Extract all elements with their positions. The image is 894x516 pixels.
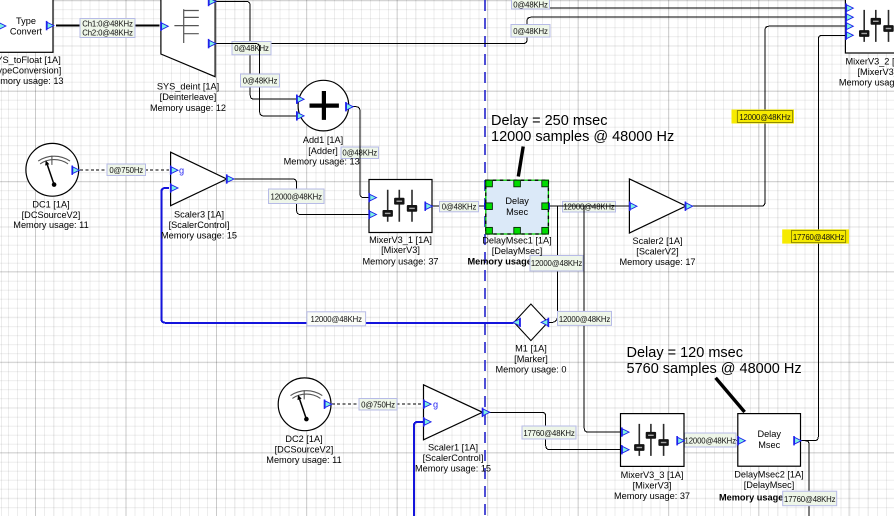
svg-text:MixerV3_1 [1A]: MixerV3_1 [1A] bbox=[369, 235, 432, 245]
svg-text:Scaler2 [1A]: Scaler2 [1A] bbox=[632, 236, 682, 246]
svg-text:17760@48KHz: 17760@48KHz bbox=[793, 233, 845, 242]
svg-text:12000@48KHz: 12000@48KHz bbox=[563, 203, 615, 212]
svg-text:0@48KHz: 0@48KHz bbox=[234, 44, 269, 53]
svg-text:17760@48KHz: 17760@48KHz bbox=[784, 495, 836, 504]
svg-text:[ScalerControl]: [ScalerControl] bbox=[169, 220, 230, 230]
svg-text:[DelayMsec]: [DelayMsec] bbox=[492, 246, 543, 256]
svg-text:17760@48KHz: 17760@48KHz bbox=[523, 429, 575, 438]
dashed wire DC1 to Scaler3 g bbox=[80, 169, 169, 171]
svg-text:Memory usage: 15: Memory usage: 15 bbox=[161, 230, 237, 240]
text label of Scaler1 bbox=[415, 443, 491, 474]
svg-text:[Adder]: [Adder] bbox=[308, 146, 338, 156]
svg-text:DC1 [1A]: DC1 [1A] bbox=[32, 199, 69, 209]
wire branch down to Add1 in2 (drawn over label) bbox=[216, 44, 297, 116]
blue wire M1 out to Scaler3 in2 (feedback) bbox=[161, 188, 513, 323]
block Scaler3 (ScalerControl) bbox=[170, 152, 234, 206]
block Scaler1 (ScalerControl) bbox=[423, 385, 490, 440]
svg-text:Convert: Convert bbox=[10, 27, 43, 37]
label 12000@48KHz (on blue feedback wire) bbox=[307, 312, 366, 326]
svg-text:Memory usage: 37: Memory usage: 37 bbox=[614, 491, 690, 501]
wire MixerV3_3 out to DelayMsec2 in bbox=[684, 440, 737, 442]
text label of DC2 bbox=[266, 434, 341, 465]
svg-text:M1 [1A]: M1 [1A] bbox=[515, 344, 547, 354]
wire SYS_deint out2 right, up to MixerV3_2 in2 bbox=[216, 17, 846, 43]
svg-text:[Deinterleave]: [Deinterleave] bbox=[160, 92, 217, 102]
wire branch down to marker M1 bbox=[549, 206, 558, 322]
label 12000@48KHz (right of M1) bbox=[558, 311, 612, 325]
svg-text:Memory usage: 37: Memory usage: 37 bbox=[362, 257, 438, 267]
svg-text:0@48KHz: 0@48KHz bbox=[513, 27, 548, 36]
svg-text:SYS_deint [1A]: SYS_deint [1A] bbox=[157, 81, 219, 91]
svg-text:12000 samples @ 48000 Hz: 12000 samples @ 48000 Hz bbox=[491, 129, 674, 145]
label 0@48KHz (top, into MixerV3_2 in1) bbox=[512, 0, 550, 10]
svg-text:Delay = 120 msec: Delay = 120 msec bbox=[627, 345, 743, 361]
label 12000@48KHz (DelayMsec1 output net, under wire) bbox=[563, 201, 616, 212]
svg-text:DelayMsec2 [1A]: DelayMsec2 [1A] bbox=[734, 470, 803, 480]
svg-text:[TypeConversion]: [TypeConversion] bbox=[0, 66, 61, 76]
svg-text:DelayMsec1 [1A]: DelayMsec1 [1A] bbox=[482, 235, 551, 245]
label 12000@48KHz (net label next to bold memory text) bbox=[530, 256, 583, 272]
label 12000@48KHz (Scaler3 out net) bbox=[269, 189, 325, 204]
svg-text:5760 samples @ 48000 Hz: 5760 samples @ 48000 Hz bbox=[627, 361, 802, 377]
text label of Add1 bbox=[284, 135, 360, 166]
label 0@48KHz (deint ch2 net) bbox=[241, 74, 280, 87]
svg-text:g: g bbox=[433, 400, 438, 410]
text label of SYS_deint bbox=[150, 81, 226, 112]
svg-text:Memory usage: 11: Memory usage: 11 bbox=[266, 455, 341, 465]
block MixerV3_1 (MixerV3) bbox=[368, 180, 432, 233]
svg-text:12000@48KHz: 12000@48KHz bbox=[559, 315, 611, 324]
svg-text:12000@48KHz: 12000@48KHz bbox=[311, 315, 363, 324]
marker M1 bbox=[513, 304, 549, 341]
text label of MixerV3_3 bbox=[614, 470, 690, 501]
text label of DelayMsec1 bbox=[482, 235, 551, 255]
svg-text:Msec: Msec bbox=[506, 207, 528, 217]
svg-text:Memory usage: 12: Memory usage: 12 bbox=[150, 103, 226, 113]
text label of SYS_toFloat bbox=[0, 55, 64, 86]
svg-text:Memory usage: 39: Memory usage: 39 bbox=[839, 77, 894, 87]
block DelayMsec1 (DelayMsec, selected) bbox=[485, 180, 549, 234]
wire SYS_deint out1 down to Add1 in1 bbox=[216, 2, 297, 100]
block MixerV3_3 (MixerV3) bbox=[621, 414, 685, 467]
label 17760@48KHz (Scaler1 out net) bbox=[522, 426, 576, 439]
text label of MixerV3_1 bbox=[362, 235, 438, 267]
svg-text:12000@48KHz: 12000@48KHz bbox=[271, 193, 323, 202]
svg-text:Scaler1 [1A]: Scaler1 [1A] bbox=[428, 443, 478, 453]
svg-text:0@48KHz: 0@48KHz bbox=[442, 203, 477, 212]
svg-text:Ch2:0@48KHz: Ch2:0@48KHz bbox=[82, 28, 133, 37]
wire Scaler3 out to MixerV3_1 in2 bbox=[234, 179, 369, 215]
wire Add1 out to MixerV3_1 in1 bbox=[352, 107, 369, 198]
svg-text:12000@48KHz: 12000@48KHz bbox=[531, 259, 583, 268]
label 0@48KHz (Add1 output net, under wire) bbox=[341, 147, 379, 159]
svg-text:Delay: Delay bbox=[505, 196, 529, 206]
block DC1 (DCSourceV2) bbox=[26, 143, 80, 196]
wire DelayMsec2 out down off-page bbox=[801, 441, 809, 516]
svg-text:0@48KHz: 0@48KHz bbox=[513, 1, 548, 10]
label 12000@48KHz (MixerV3_3 out net) bbox=[685, 433, 737, 447]
annotation: Delay = 250 msec bbox=[491, 113, 674, 177]
svg-text:Msec: Msec bbox=[758, 440, 780, 450]
svg-text:Delay: Delay bbox=[757, 429, 781, 439]
svg-text:[Marker]: [Marker] bbox=[514, 354, 548, 364]
wire Scaler2 out up to MixerV3_2 in3 bbox=[692, 26, 845, 206]
svg-text:[MixerV3]: [MixerV3] bbox=[633, 481, 672, 491]
svg-text:0@750Hz: 0@750Hz bbox=[361, 400, 395, 409]
svg-text:[ScalerControl]: [ScalerControl] bbox=[423, 453, 484, 463]
label 0@750Hz (DC2 out) bbox=[359, 399, 397, 411]
svg-text:[DelayMsec]: [DelayMsec] bbox=[744, 480, 795, 490]
svg-text:0@750Hz: 0@750Hz bbox=[109, 166, 143, 175]
svg-text:Memory usage: 13: Memory usage: 13 bbox=[284, 156, 360, 166]
svg-text:Delay = 250 msec: Delay = 250 msec bbox=[491, 113, 607, 129]
label 0@48KHz (MixerV3_1 out net) bbox=[440, 201, 479, 211]
text label of MixerV3_2 bbox=[839, 56, 894, 87]
label 0@48KHz (into MixerV3_2 in2) bbox=[511, 25, 550, 38]
block SYS_toFloat (TypeConversion) bbox=[0, 0, 54, 52]
block Add1 (Adder) bbox=[296, 80, 353, 131]
svg-text:Scaler3 [1A]: Scaler3 [1A] bbox=[174, 209, 224, 219]
text label of Scaler2 bbox=[619, 236, 695, 267]
block MixerV3_2 (MixerV3) bbox=[845, 0, 894, 53]
svg-text:Memory usage: 11: Memory usage: 11 bbox=[13, 220, 88, 230]
wire DelayMsec2 out up to MixerV3_2 in4 bbox=[801, 35, 845, 440]
svg-text:Memory usage: 13: Memory usage: 13 bbox=[0, 76, 64, 86]
svg-text:[DCSourceV2]: [DCSourceV2] bbox=[22, 210, 81, 220]
vertical dashed page-break line bbox=[484, 0, 486, 516]
label 17760@48KHz (bottom, DelayMsec2 down net) bbox=[783, 491, 837, 506]
wire DelayMsec1 out to Scaler2 in bbox=[549, 205, 630, 207]
wire SYS_toFloat to SYS_deint (2ch interleaved) bbox=[56, 25, 160, 27]
wire branch down to MixerV3_3 in1 bbox=[584, 206, 621, 432]
label Ch1:0@48KHz Ch2:0@48KHz bbox=[80, 19, 135, 38]
svg-text:[DCSourceV2]: [DCSourceV2] bbox=[275, 445, 334, 455]
svg-text:[MixerV3]: [MixerV3] bbox=[381, 245, 420, 255]
blue wire from off-page bottom to Scaler1 in2 bbox=[414, 422, 423, 516]
wire into MixerV3_2 in1 (from top, behind label) bbox=[516, 0, 845, 8]
wire MixerV3_1 out to DelayMsec1 in bbox=[432, 205, 485, 207]
svg-text:12000@48KHz: 12000@48KHz bbox=[685, 437, 737, 446]
block DC2 (DCSourceV2) bbox=[278, 378, 332, 431]
svg-text:DC2 [1A]: DC2 [1A] bbox=[285, 434, 322, 444]
dashed wire DC2 to Scaler1 g bbox=[332, 403, 423, 405]
svg-text:Memory usage: 0: Memory usage: 0 bbox=[496, 365, 567, 375]
block DelayMsec2 (DelayMsec) bbox=[737, 414, 801, 467]
block Scaler2 (ScalerV2) bbox=[629, 179, 693, 233]
block SYS_deint (Deinterleave) bbox=[160, 0, 216, 77]
text label of DC1 bbox=[13, 199, 88, 230]
svg-text:MixerV3_3 [1A]: MixerV3_3 [1A] bbox=[621, 470, 684, 480]
label 0@750Hz (DC1 out) bbox=[107, 164, 146, 176]
svg-text:[MixerV3]: [MixerV3] bbox=[857, 67, 894, 77]
svg-text:0@48KHz: 0@48KHz bbox=[243, 77, 278, 86]
annotation: Delay = 120 msec bbox=[627, 345, 802, 412]
svg-text:MixerV3_2 [1A]: MixerV3_2 [1A] bbox=[845, 56, 894, 66]
wire Scaler1 out to MixerV3_3 in2 bbox=[489, 412, 621, 449]
label 0@48KHz (deint ch1 net) bbox=[232, 42, 271, 55]
yellow highlighted label 12000@48KHz (Scaler2 out net) bbox=[732, 110, 795, 124]
text label of DelayMsec2 bbox=[734, 470, 803, 490]
svg-text:Add1 [1A]: Add1 [1A] bbox=[303, 135, 343, 145]
svg-text:12000@48KHz: 12000@48KHz bbox=[739, 113, 791, 122]
svg-text:Memory usage: 17: Memory usage: 17 bbox=[619, 257, 695, 267]
svg-text:Ch1:0@48KHz: Ch1:0@48KHz bbox=[82, 19, 133, 28]
yellow highlighted label 17760@48KHz (DelayMsec2 out net) bbox=[782, 229, 849, 243]
text label of M1 bbox=[496, 344, 567, 375]
svg-text:SYS_toFloat [1A]: SYS_toFloat [1A] bbox=[0, 55, 61, 65]
svg-text:Type: Type bbox=[16, 16, 36, 26]
svg-text:[ScalerV2]: [ScalerV2] bbox=[636, 246, 678, 256]
svg-text:Memory usage: 15: Memory usage: 15 bbox=[415, 464, 491, 474]
svg-text:g: g bbox=[179, 166, 184, 176]
text label of Scaler3 bbox=[161, 209, 237, 240]
